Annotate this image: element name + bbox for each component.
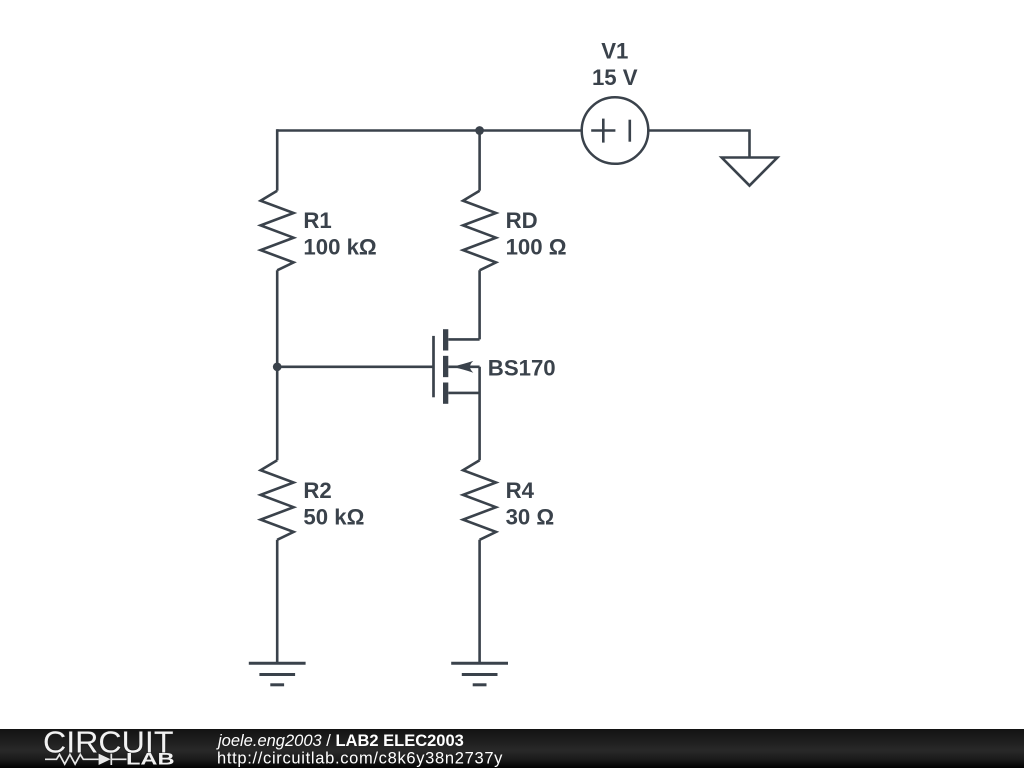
svg-text:BS170: BS170 bbox=[488, 356, 556, 381]
svg-text:http://circuitlab.com/c8k6y38n: http://circuitlab.com/c8k6y38n2737y bbox=[217, 750, 503, 768]
V1 minus sign bbox=[628, 120, 631, 142]
svg-text:30 Ω: 30 Ω bbox=[506, 504, 555, 529]
wire top rail left segment bbox=[277, 129, 479, 132]
svg-text:100 Ω: 100 Ω bbox=[506, 235, 567, 260]
svg-text:R2: R2 bbox=[303, 478, 331, 503]
wire gate node to R2 bbox=[276, 367, 279, 460]
voltage source V1 bbox=[582, 97, 649, 164]
ground right earth symbol bbox=[451, 663, 508, 685]
wire R1 bottom to gate node bbox=[276, 270, 279, 367]
wire R2 bottom to ground bbox=[276, 540, 279, 664]
Q1 channel segment source bbox=[443, 383, 448, 404]
node top rail junction bbox=[475, 126, 484, 135]
wire left branch top (node to R1) bbox=[276, 129, 279, 191]
Q1 source stub bbox=[448, 392, 479, 395]
wire R4 bottom to ground bbox=[478, 540, 481, 664]
wire RD bottom to drain bbox=[478, 270, 481, 339]
Q1 channel segment body bbox=[443, 356, 448, 377]
svg-text:R4: R4 bbox=[506, 478, 535, 503]
svg-text:50 kΩ: 50 kΩ bbox=[303, 504, 364, 529]
node gate junction bbox=[273, 362, 282, 371]
wire top rail right segment to V1 bbox=[480, 129, 581, 132]
V1 circle body bbox=[582, 97, 649, 164]
svg-text:RD: RD bbox=[506, 208, 538, 233]
resistor R2 bbox=[261, 460, 294, 540]
logo resistor diode glyph bbox=[45, 754, 127, 765]
Q1 body arrow bbox=[452, 361, 474, 373]
ground sgnd triangle under V1 bbox=[722, 158, 778, 186]
V1 plus sign bbox=[591, 129, 615, 132]
wire node to RD bbox=[478, 131, 481, 191]
resistor RD bbox=[463, 191, 496, 271]
Q1 channel segment drain bbox=[443, 329, 448, 350]
wire gate lead bbox=[277, 365, 433, 368]
Q1 drain stub bbox=[448, 338, 479, 341]
resistor R4 bbox=[463, 460, 496, 540]
svg-text:15 V: 15 V bbox=[592, 65, 638, 90]
svg-text:joele.eng2003 / LAB2 ELEC2003: joele.eng2003 / LAB2 ELEC2003 bbox=[216, 732, 464, 750]
resistor R1 bbox=[261, 191, 294, 271]
Q1 gate bar bbox=[432, 336, 435, 397]
svg-text:V1: V1 bbox=[601, 39, 628, 64]
svg-text:LAB: LAB bbox=[126, 751, 175, 768]
wire V1 to ground corner bbox=[649, 131, 749, 159]
svg-text:R1: R1 bbox=[303, 208, 331, 233]
wire source to R4 bbox=[478, 367, 481, 460]
ground left earth symbol bbox=[249, 663, 306, 685]
transistor Q1 BS170 NMOS bbox=[434, 329, 480, 404]
svg-text:100 kΩ: 100 kΩ bbox=[303, 235, 376, 260]
footer bar bbox=[0, 729, 1024, 768]
Q1 body stub bbox=[448, 365, 479, 368]
